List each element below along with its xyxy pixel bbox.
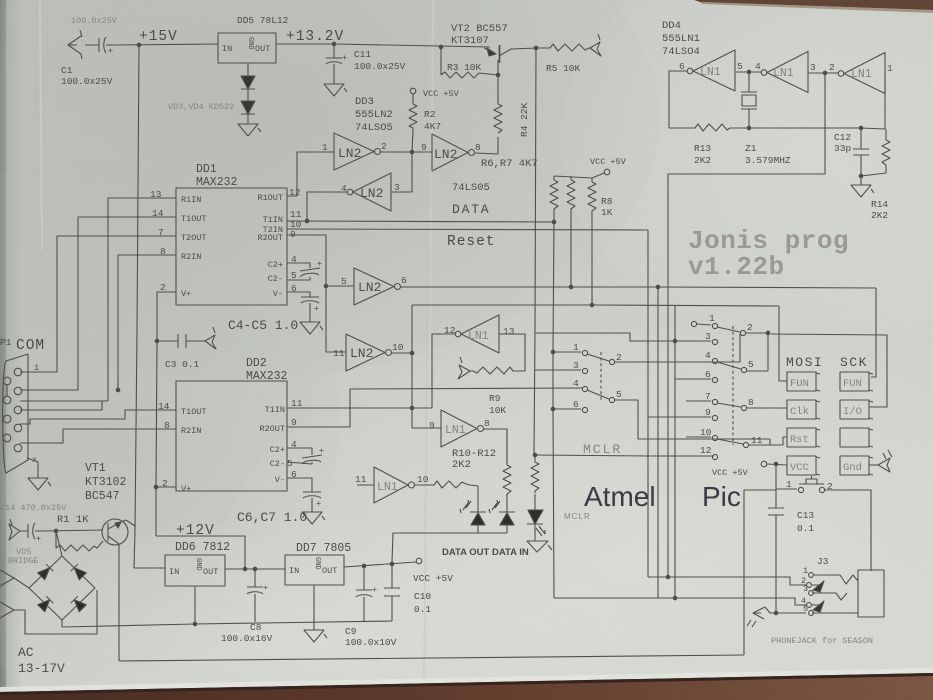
LED VD (data in C) [528,494,543,524]
wire DD1 pin14 to COM pin2 [20,217,176,390]
wire v768 [767,333,769,371]
wire DD1 V+ down to C3 node and +12V rail [156,292,176,536]
wire DD7 GND to rail [313,585,315,622]
jack contact 4 arrow [812,601,824,612]
wire arm5 to v768 [747,370,768,372]
off-page arrow (C14 left) [9,519,20,540]
wire inverter A out left and down to feedback rail [669,71,687,128]
wire v658 down to jack line [657,287,659,598]
wire MCLR line [534,455,714,456]
switch S1 arm 4-5 [587,390,609,399]
capacitor C8 [247,569,263,622]
capacitor C7 (V-) [287,478,321,512]
resistor R7 [567,180,575,213]
wire right column vertical from 288 down to SCK FUN [871,288,876,377]
wire COM shield to ground [27,458,38,478]
ground (C12/R14) [851,176,874,197]
switch S2 pin12 [648,455,711,457]
AC input chevron 2 [0,590,97,634]
wire R7 bottom to LN2#5 line [570,213,572,287]
header box I/O [840,400,869,419]
wire LN2#1 out to LN2#2 in [381,151,432,153]
header box FUN (MOSI) [787,372,816,391]
bridge diode 4 [71,596,87,612]
wire arm5 right and down [615,400,770,439]
switch S2 pin10 [686,436,711,438]
wire DD1 pin8 down to pin2 line [118,255,176,390]
terminal Pic pin1 [691,321,696,326]
wire bridge - output to gnd rail [61,620,63,627]
wire COM pin3 jog [20,401,102,410]
off-page arrow (AC in) [68,30,82,59]
ground arrow (LED C) [527,541,552,552]
wire VT1 collector to v135 [121,520,135,526]
wire h333 from v536 to Pic pin area [535,333,711,341]
wire LN2#3 output down to DATA [307,192,347,221]
connector DB9 outline [3,354,28,473]
bridge diode 1 [38,564,54,580]
bridge diode 3 [38,596,54,612]
header box (empty) [840,428,869,447]
wire R6 bottom to DATA [553,213,555,222]
DB9 pins left column [3,377,11,385]
DB9 pins right column [14,368,22,376]
paper center crease [424,0,430,700]
ground (C7) [302,512,325,524]
wire v675 down [674,306,676,598]
bottom long rail [119,655,744,661]
wire v412 junction to DD2 T1IN [287,407,432,409]
resistor R11 (vertical) [503,429,511,496]
capacitor C4 (between C2+/C2-) [287,263,320,280]
tie left pins [6,385,8,396]
wire long vertical from +15V node down to VT1 collector and DD6 IN [134,45,139,568]
header box FUN (SCK) [840,372,869,391]
ground (C5) [300,322,323,334]
bridge diode 2 [71,564,87,580]
dashed link S2 [732,326,734,445]
wire LN2#4 output route up and right (h305) [412,305,779,306]
crystal Z1 3.579MHZ [741,72,757,92]
wire R2 bottom to LN2#1 output line [412,131,413,152]
wire inverter C input from C12/R14 node [884,74,886,130]
capacitor C6 (C2+/C2-) [287,448,322,464]
resistor R6 [550,180,558,213]
wire C14 to VT1 base node [42,530,103,531]
header box VCC [787,456,816,475]
wire h598 to jack pin4 [554,598,806,605]
terminal VCC +5V circle [416,558,422,564]
header box Clk [787,400,816,419]
wire v135 to DD6 IN [134,567,165,569]
wire VT1 emitter down to bottom rail [118,544,120,661]
wire DATA (T1IN) to switch area [287,221,555,222]
wire LN1-A output left/down to DD2 T1IN line [432,334,455,408]
capacitor C1 [85,37,112,53]
jack body [858,570,884,617]
wire DD1 pin7 to COM pin1 [20,236,176,372]
wire T2IN (Reset) to right [287,229,648,230]
ground (below VD4) [238,124,261,136]
push button SB1 [776,464,797,489]
wire v744 gnd to jack area [744,490,776,655]
AC input chevron 1 [0,570,29,588]
wire +12V rail [156,536,245,568]
wire DD6 GND to rail [194,586,196,624]
wire arm11 to Rst box [749,437,787,445]
ground (below C11) [324,84,347,96]
header box Gnd [840,456,869,475]
wire inverter B in to inverter C out [808,72,838,74]
off-page arrow (R5 right) [590,34,601,56]
switch S1 arm 1-2 [587,354,609,361]
wire R6-R8 top rail [554,173,604,182]
table (top-right sliver) [694,0,933,10]
wire R2OUT down to LN2#4 input [287,235,346,352]
bottom paper edge highlight [0,668,933,692]
wire v779 down to SCK FUN box [779,306,787,381]
wire Gnd tail to off-page arrow [869,464,878,466]
wire DD2 R2OUT up to h389 and right to Atmel pin4 [287,388,583,427]
paper shading patches [0,0,660,380]
switch S1 pin1 [553,351,581,353]
wire osc tap 2/3 node down-left (to switch area) [668,73,825,577]
switch S1 pin3 [535,369,581,371]
resistor R10 (horizontal) [415,481,478,512]
op-amp LN1 inverter C (2-1) [838,71,844,77]
wire bridge + output up to VT1 node [56,531,62,556]
capacitor C13 [768,489,784,613]
wire DD7 OUT to VCC terminal [344,562,416,567]
off-page arrow (C3 right) [205,327,216,349]
wire DD1 pin12 up to LN2#1 input [287,152,305,196]
op-amp LN1 inverter 11-10 (bottom left, partial) [374,467,408,503]
ground (COM) [28,478,51,490]
wire COM pin4 to DD2 T1OUT (jog) [20,410,176,424]
capacitor C14 [20,523,42,539]
LED VD (data out B) [489,500,500,513]
wire arm2 to right (MOSI net) [615,334,740,362]
switch S2 arm 10-11 [717,439,743,444]
resistor R1 [56,531,103,551]
wire R8 bottom to h305 [591,215,593,305]
op-amp LN1 inverter B (4-3) [761,70,767,76]
wire button pin2 right and down to jack [825,490,871,571]
wire COM pin5 to DD2 R2IN [20,429,176,443]
terminal VCC +5V (R2 top) [410,88,416,94]
switch S2 arm 1-2 [717,327,740,332]
wire +15V rail [112,44,218,45]
wire I/O right tail up to Pic arm2 net [771,334,887,407]
wire T2IN vertical v648 [647,230,649,577]
switch S1 pin6 [553,408,581,410]
wire arm2 to v768 [746,332,768,334]
dashed link S1 [600,352,602,400]
terminal VCC (Pic) [761,461,767,467]
wire R4 top through R3 junction to VT2 base [497,60,499,104]
wire DD1 pin13 to COM pin3 [20,198,176,401]
wire LN2#2 out up to R4 [475,137,498,154]
wire arm8 to Clk box [747,407,787,409]
off-page arrow (Gnd) [878,450,892,472]
wire inverter A in to inverter B out [735,71,762,73]
switch S2 pin6 [675,378,711,380]
switch S2 arm 4-5 [717,362,741,369]
wire LED A/B cathode rail to VCC node [392,533,507,562]
wire h577 to jack pin2 [648,577,806,585]
wire DD5 OUT to +13.2V rail [276,44,490,47]
resistor R12 (vertical) [531,455,539,493]
wire DD6 OUT to DD7 IN [225,568,285,570]
gnd rail h622 [62,621,392,627]
off-page arrow (R9 left) [458,357,470,379]
switch S2 arm 7-8 [717,403,741,407]
wire DD2 V+ from v156 [156,486,176,488]
jack contact 2 arrow [812,581,824,592]
capacitor C5 (V-) [287,292,319,322]
ground (DD7 gnd rail) [304,622,327,642]
jack contact 1 (squiggle) [814,575,858,584]
wire LN1-B out right and down to R11 [484,429,507,465]
wire LN2#4 output to v412 [392,305,412,428]
table (bottom strip) [0,673,933,700]
switch S2 pin9 [648,416,711,418]
header box Rst [787,428,816,447]
wire LN2#3 input from v412 [391,152,412,192]
wire LN2#5 output long to right (to switch column) [401,287,876,288]
off-page arrow (jack gnd) [747,607,765,627]
wire feedback rail to C12 and R14 [749,128,885,129]
LED VD (data out A) [460,500,471,513]
switch S2 pin7 [686,400,711,402]
wire VCC terminal to VCC box [767,464,787,465]
paper fold crease top-left [36,0,38,250]
capacitor C9 [356,566,372,621]
wire LN1-A input right and down to R9 [499,334,525,371]
wire DATA vertical v553 [553,222,554,598]
capacitor C10 [384,564,400,621]
wire VT2 collector long vertical down to MCLR line [534,48,536,455]
